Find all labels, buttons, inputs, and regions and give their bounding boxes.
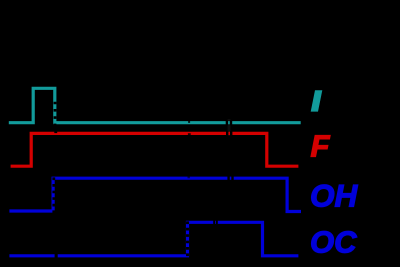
dotted guide line t2 over OC rising edge: [186, 221, 189, 256]
waveform OH (blue): [9, 178, 301, 211]
break mark on waveform OC at x~215: [213, 220, 218, 225]
svg-text:OH: OH: [310, 178, 359, 214]
dotted guide line t2 notch over F high line: [188, 133, 191, 135]
dotted guide line t2 notch over OH high line: [188, 176, 190, 178]
break mark on waveform OH at x~230: [227, 176, 233, 181]
dotted guide line t1 over I falling edge: [54, 102, 57, 127]
break mark on waveform I at x~229: [226, 120, 233, 125]
dotted guide line t1 over OH rising edge: [52, 177, 55, 213]
waveform I (current pulse, teal): [9, 88, 301, 122]
break mark on waveform F at x~229: [226, 131, 232, 136]
svg-text:F: F: [311, 129, 331, 164]
waveform F (red): [11, 133, 299, 166]
dotted guide line t2 notch over I low line: [188, 121, 190, 123]
break column faint smudge between I and F: [228, 119, 231, 136]
label I: [311, 90, 323, 111]
svg-text:OC: OC: [310, 225, 357, 260]
dotted guide line t1 dot over OC low line: [55, 254, 58, 258]
waveform OC (blue): [9, 222, 298, 256]
dotted guide line t1 dot over F high line: [54, 131, 57, 133]
